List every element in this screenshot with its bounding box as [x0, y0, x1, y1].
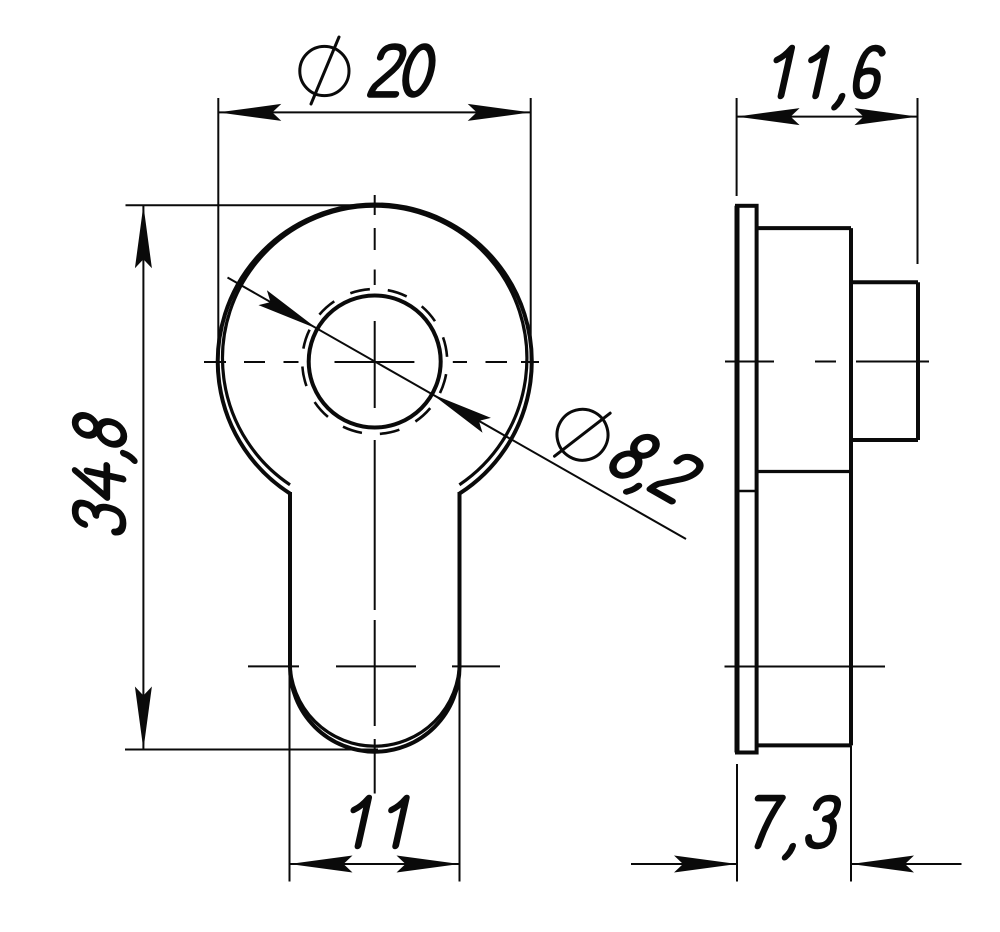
side view: body internal line: [757, 470, 851, 473]
vertical centerline: [374, 195, 376, 794]
side view: plate tick: [737, 490, 757, 493]
stem right vertical: [458, 492, 462, 668]
front view: inner (chamfer) circle arc: [223, 206, 527, 485]
dim 34,8 top arrow: [135, 205, 152, 268]
side view: hub right vertical: [916, 282, 920, 440]
dia 8,2 leader line: [228, 278, 687, 540]
stem arc centerline: [248, 665, 500, 667]
dim 34,8: dimension line: [142, 205, 144, 749]
dim 7,3: dimension tails: [631, 863, 737, 865]
dim 11 left arrow: [290, 856, 353, 873]
text 11,6: [766, 48, 884, 107]
dim 11,6 left arrow: [737, 108, 800, 125]
dimension texts (custom CAD-style glyphs): [75, 37, 884, 857]
dia 8,2 upper arrow: [259, 290, 318, 329]
dim 11: extension lines: [289, 668, 291, 882]
dim 34,8: extension lines: [126, 204, 378, 206]
dim 7,3 right arrow: [851, 856, 914, 873]
arrowheads: [135, 104, 918, 873]
dim 34,8 bottom arrow: [135, 687, 152, 750]
stem bottom inner arc: [290, 662, 460, 747]
side view: hub top edge: [851, 280, 918, 284]
dim 11,6: dimension line: [737, 116, 918, 118]
text 7,3: [745, 798, 840, 857]
side view: hub bottom edge: [851, 438, 918, 442]
side view: body right vertical: [849, 228, 853, 745]
dim 7,3: extension line left: [736, 764, 738, 882]
dim 11 right arrow: [397, 856, 460, 873]
dia 8,2 lower arrow: [432, 394, 491, 433]
dim 7,3 left arrow: [674, 856, 737, 873]
stem left vertical: [288, 492, 292, 668]
dim 20 right arrow: [468, 104, 531, 121]
side view: plate front face (thicker edge): [735, 206, 740, 753]
side view: arc center line: [725, 666, 886, 668]
stem bottom outer arc: [290, 667, 460, 752]
side view: body top edge: [757, 226, 851, 230]
hole circle: [309, 296, 441, 428]
side view: body bottom edge: [757, 743, 851, 747]
dia symbol for 20: [300, 37, 349, 104]
text 11: [346, 798, 406, 846]
dim 20: dimension line: [218, 111, 530, 113]
hidden counterbore dashed circle: [291, 278, 459, 446]
text 20: [370, 47, 436, 95]
side view: flange plate: [737, 206, 757, 753]
dim 11,6: extension lines: [736, 98, 738, 196]
dim 11,6 right arrow: [855, 108, 918, 125]
dim 20: extension lines: [217, 98, 219, 364]
dim 7,3: extension line right (below body): [850, 745, 852, 881]
horizontal centerline: [204, 361, 539, 363]
text 34,8 (rotated): [75, 413, 134, 536]
side view: horizontal centerline: [725, 361, 929, 363]
dim 20 left arrow: [218, 104, 281, 121]
front view: outer circle arc: [218, 204, 532, 493]
dim 11: dimension line: [290, 863, 460, 865]
dia 8,2 label (rotated along leader): [544, 392, 705, 523]
